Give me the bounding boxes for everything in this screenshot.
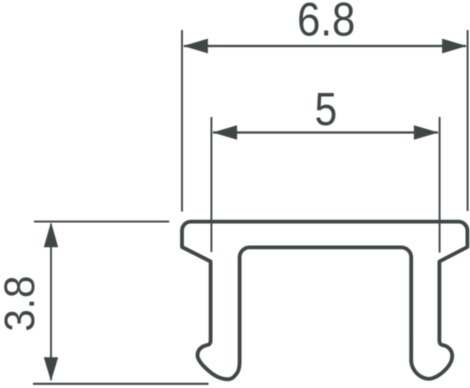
dimension 3.8 : top extension line xyxy=(34,221,169,223)
dimension 5 : left extension line xyxy=(210,117,212,252)
svg-text:6.8: 6.8 xyxy=(297,0,355,46)
dimension 3.8 : bottom arrowhead xyxy=(44,357,58,381)
dimension 3.8 : bottom extension line xyxy=(33,383,209,385)
dimension 5 : left arrowhead xyxy=(213,125,238,140)
dimension 6.8 : right extension line xyxy=(467,30,469,211)
dimension 6.8 : left extension line xyxy=(181,30,183,212)
dimension 3.8 : top arrowhead xyxy=(44,222,58,247)
svg-text:3.8: 3.8 xyxy=(0,276,43,332)
dimension 5 : right extension line xyxy=(439,117,441,253)
dimension 3.8 : dimension line xyxy=(50,224,52,380)
dimension 5 : dimension line xyxy=(213,131,438,133)
dimension 6.8 : dimension line xyxy=(184,45,466,47)
profile outline xyxy=(182,222,467,380)
dimension 6.8 : left arrowhead xyxy=(183,39,208,54)
dimension 5 : right arrowhead xyxy=(414,125,439,140)
svg-text:5: 5 xyxy=(315,85,338,136)
dimension 6.8 : right arrowhead xyxy=(442,39,467,54)
